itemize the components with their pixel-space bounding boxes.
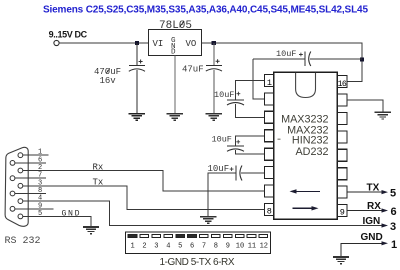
svg-text:Rx: Rx — [93, 162, 104, 172]
wire C4 to ground — [208, 173, 236, 217]
wire GND output — [341, 243, 384, 257]
svg-text:RX: RX — [367, 201, 381, 212]
capacitor C3 10uF — [253, 58, 305, 60]
svg-text:12: 12 — [260, 243, 268, 251]
DB9 pin 8 — [10, 191, 15, 196]
U1 pin 3 — [265, 111, 274, 123]
svg-text:RS 232: RS 232 — [5, 236, 41, 247]
svg-text:5: 5 — [390, 188, 396, 200]
arrow right (transmit) — [292, 207, 313, 209]
J3 pin 12 — [259, 234, 268, 237]
svg-text:9: 9 — [226, 243, 230, 251]
U1 pin 16 — [337, 76, 347, 88]
U1 pin 11 — [337, 168, 347, 180]
U1 pin 6 — [265, 167, 274, 179]
U1 pin 13 — [337, 131, 347, 143]
wire DB9 pin6 stub — [15, 162, 46, 164]
U1 pin 8 — [265, 203, 274, 215]
svg-text:16: 16 — [338, 80, 347, 89]
svg-text:TX: TX — [367, 183, 380, 194]
wire TX output — [347, 191, 384, 193]
ground for DB9 pin5 — [83, 227, 99, 234]
svg-text:3: 3 — [390, 221, 396, 233]
svg-text:VO: VO — [186, 39, 197, 49]
U1 pin 5 — [265, 148, 274, 160]
U1 pin 1 — [265, 75, 274, 87]
wire C3 to pin2 (V+) — [253, 59, 265, 99]
svg-text:2: 2 — [142, 243, 146, 251]
junction C3/VCC — [360, 58, 364, 62]
svg-text:6: 6 — [391, 206, 397, 218]
U1 pin 15 — [337, 94, 347, 106]
svg-text:6: 6 — [190, 243, 194, 251]
phone connector J3 body — [126, 232, 271, 254]
ground for C4 — [200, 217, 216, 224]
J3 pin 11 — [247, 234, 256, 237]
wire C4 to pin6 — [241, 172, 265, 174]
svg-text:10: 10 — [236, 243, 244, 251]
svg-text:9..15V DC: 9..15V DC — [49, 29, 88, 39]
U1 pin 9 — [337, 205, 347, 217]
DB9 pin 9 — [10, 206, 15, 211]
U1 pin 12 — [337, 149, 347, 161]
svg-text:3: 3 — [154, 243, 158, 251]
svg-text:Tx: Tx — [93, 178, 104, 188]
svg-text:GND: GND — [62, 209, 80, 218]
U1 pin 4 — [265, 130, 274, 142]
J3 pin 10 — [235, 234, 244, 237]
arrow left (receive) — [295, 190, 320, 192]
svg-text:1: 1 — [131, 243, 135, 251]
wire DC input to regulator — [59, 42, 148, 44]
svg-text:11: 11 — [248, 243, 256, 251]
svg-text:AD232: AD232 — [295, 146, 328, 158]
svg-text:VI: VI — [153, 39, 164, 49]
J3 pin 5 (TX, filled) — [176, 234, 185, 237]
ground for U2 — [167, 114, 183, 121]
svg-text:D: D — [171, 49, 176, 57]
IC U1 MAX232 body — [274, 72, 338, 219]
svg-text:8: 8 — [267, 207, 272, 217]
IC notch — [296, 73, 316, 98]
capacitor C5 470uF — [129, 43, 145, 114]
junction 470uF/input — [135, 41, 139, 45]
J3 pin 2 — [140, 234, 149, 237]
J3 pin 9 — [223, 234, 232, 237]
U1 pin 7 — [265, 185, 274, 197]
svg-text:HIN232: HIN232 — [292, 135, 329, 147]
wire DB9 pin1 stub — [23, 154, 49, 156]
DB9 pin 1 — [18, 153, 23, 158]
wire pin15 to ground — [347, 100, 383, 112]
DB9 pin 6 — [10, 161, 15, 166]
J3 pin 3 — [152, 234, 161, 237]
svg-text:5: 5 — [38, 210, 42, 218]
svg-text:10uF: 10uF — [214, 90, 234, 100]
svg-text:GND: GND — [361, 232, 383, 243]
DB9 pin 7 — [10, 176, 15, 181]
wire DB9 pin5 GND — [23, 216, 91, 227]
wire VO to VCC rail — [201, 43, 362, 82]
DB9 pin 2 — [18, 168, 23, 173]
svg-text:47uF: 47uF — [182, 65, 204, 75]
svg-text:7: 7 — [202, 243, 206, 251]
svg-text:5: 5 — [178, 243, 182, 251]
J3 pin 6 (RX, filled) — [188, 234, 197, 237]
J3 pin 1 (GND, filled) — [128, 234, 137, 237]
U1 pin 14 — [337, 112, 347, 124]
wire C1+ to pin1 — [236, 81, 265, 100]
wire C2- to pin5 — [236, 150, 265, 154]
wire DB9 pin7 stub — [15, 177, 46, 179]
capacitor C6 47uF — [206, 43, 222, 114]
svg-text:8: 8 — [214, 243, 218, 251]
terminal J2 DC input — [54, 40, 59, 45]
svg-text:10uF: 10uF — [212, 135, 232, 145]
ground for GND output — [333, 257, 349, 264]
wire DB9 pin4 to IGN — [23, 201, 384, 225]
wire DB9 pin9 stub — [15, 208, 54, 210]
svg-text:4: 4 — [166, 243, 170, 251]
wire DB9 pin2 Rx to U1 pin7 — [23, 171, 265, 192]
wire C1- to pin3 — [236, 104, 265, 118]
wire DB9 pin8 stub — [15, 193, 46, 195]
J3 pin 8 — [212, 234, 221, 237]
arrow IGN output — [382, 223, 389, 227]
svg-text:1-GND 5-TX 6-RX: 1-GND 5-TX 6-RX — [160, 257, 235, 268]
svg-text:MAX3232: MAX3232 — [281, 113, 328, 125]
DB9 pin 5 — [18, 214, 23, 219]
U1 pin 10 — [337, 186, 347, 198]
svg-text:Siemens C25,S25,C35,M35,S35,A3: Siemens C25,S25,C35,M35,S35,A35,A36,A40,… — [43, 5, 368, 16]
svg-text:9: 9 — [340, 208, 345, 218]
wire regulator GND pin — [174, 55, 176, 113]
wire C2+ to pin4 — [236, 136, 265, 146]
svg-text:IGN: IGN — [363, 216, 381, 227]
DB9 connector shell — [5, 147, 28, 226]
U1 pin 2 — [265, 93, 274, 105]
svg-text:16v: 16v — [100, 76, 117, 86]
svg-text:1: 1 — [267, 78, 272, 88]
svg-text:1: 1 — [391, 239, 397, 251]
svg-text:10uF: 10uF — [276, 49, 296, 59]
ground for C6 — [206, 114, 222, 121]
junction 47uF/VO — [212, 41, 216, 45]
ground for C5 — [129, 114, 145, 121]
wire RX output — [347, 210, 384, 212]
wire DB9 pin3 Tx to U1 pin8 — [23, 186, 265, 210]
ground for pin15 — [375, 112, 391, 119]
DB9 pin 4 — [18, 199, 23, 204]
DB9 pin 3 — [18, 183, 23, 188]
J3 pin 4 — [164, 234, 173, 237]
IC part names — [278, 113, 329, 158]
J3 pin 7 — [200, 234, 209, 237]
